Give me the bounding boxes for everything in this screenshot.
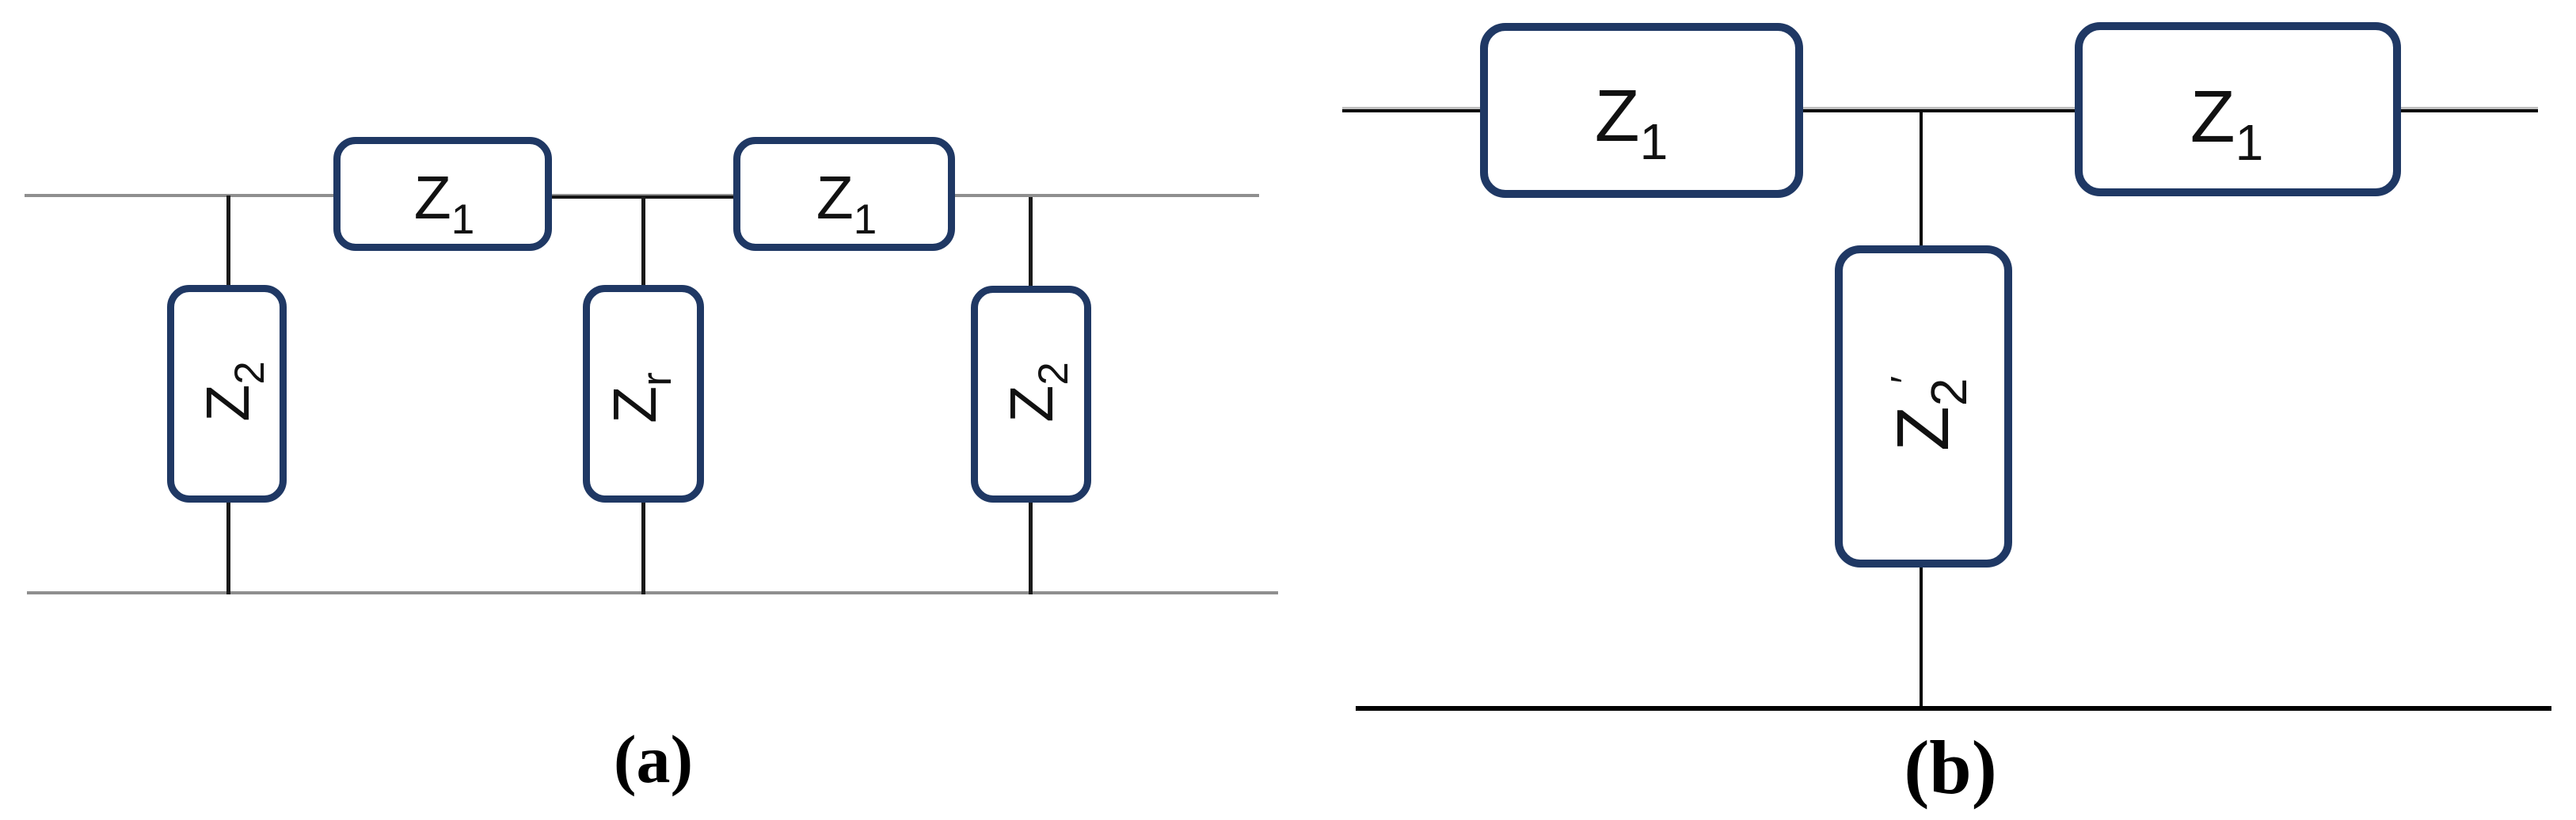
wire: top rail of network (b), black — [1342, 107, 2538, 109]
wire: shunt stub bottom, Z2 to bottom rail (a) — [226, 500, 230, 594]
wire: bottom rail of network (a), gray — [27, 591, 1278, 594]
impedance Z1 (a, right series) — [733, 137, 955, 251]
wire: stub from Z2' to bottom rail (b) — [1920, 565, 1923, 709]
impedance Z2 (a, right shunt) — [971, 286, 1091, 503]
wire: junction stub, T-node down to Z2' (b) — [1920, 110, 1923, 247]
wire: shunt stub top, node between input and Z2 (a) — [226, 196, 230, 287]
wire: shunt stub bottom, Zr to bottom rail (a) — [641, 500, 645, 594]
impedance Z1 (b, right series) — [2075, 22, 2401, 196]
wire: black segment between Z1 boxes of (a) — [549, 196, 735, 199]
wire: shunt stub top, right node to Z2 (a) — [1029, 197, 1033, 287]
caption (b) — [1871, 730, 2030, 806]
impedance Z1 (a, left series) — [333, 137, 552, 251]
wire: shunt stub bottom, right Z2 to bottom rail (a) — [1029, 501, 1033, 594]
impedance Z2' (b, shunt) — [1835, 245, 2012, 568]
caption (a) — [574, 725, 732, 793]
wire: top rail of network (a), gray — [25, 194, 1259, 197]
impedance Zr (a, middle shunt) — [583, 285, 704, 503]
impedance Z1 (b, left series) — [1480, 23, 1803, 198]
wire: bottom rail of network (b), black — [1356, 706, 2551, 711]
impedance Z2 (a, left shunt) — [167, 285, 287, 503]
wire: shunt stub top, mid node to Zr (a) — [641, 196, 645, 287]
